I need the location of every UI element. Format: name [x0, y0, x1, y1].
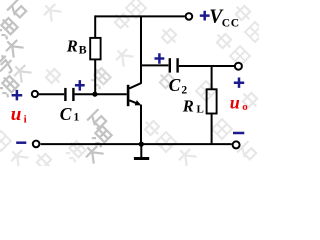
svg-text:L: L [197, 104, 204, 116]
terminal input + [32, 91, 38, 97]
wire collector to C2 [141, 64, 168, 66]
wire emitter vertical [140, 105, 142, 145]
plus input [12, 90, 23, 101]
resistor RB [90, 38, 100, 60]
node emitter-ground junction [139, 142, 144, 147]
minus output [233, 132, 244, 135]
wire input top to C1 [39, 93, 64, 95]
transistor Q1 collector [129, 83, 141, 88]
wire RL top [211, 66, 213, 89]
svg-text:B: B [79, 43, 87, 57]
plus C2 [155, 53, 165, 64]
terminal output - [233, 141, 240, 148]
svg-text:R: R [182, 97, 194, 116]
plus C1 [75, 80, 85, 91]
transistor Q1 base bar [127, 85, 130, 106]
plus VCC [200, 11, 210, 21]
svg-text:C: C [60, 104, 72, 124]
capacitor C2 [170, 58, 178, 72]
svg-text:R: R [66, 36, 78, 55]
terminal output + [235, 63, 242, 70]
wire RL bottom [211, 114, 213, 145]
wire collector vertical [140, 16, 142, 83]
capacitor C1 [65, 88, 73, 101]
plus output [234, 78, 244, 88]
label ui [11, 92, 248, 125]
wire C2 to output [179, 65, 235, 67]
resistor RL [207, 89, 217, 113]
transistor Q1 emitter [129, 100, 140, 104]
label RB [60, 6, 240, 123]
wire bottom rail [41, 143, 232, 145]
svg-text:o: o [242, 101, 248, 113]
ground [140, 144, 142, 157]
svg-text:2: 2 [181, 85, 187, 97]
svg-text:C: C [169, 75, 181, 95]
svg-text:u: u [11, 104, 22, 125]
wire top rail [95, 15, 185, 17]
wire RB top [94, 15, 96, 38]
svg-text:CC: CC [222, 17, 240, 29]
svg-text:1: 1 [74, 112, 80, 124]
wire RB bottom [94, 59, 96, 94]
polarity marks (navy) [12, 11, 245, 143]
svg-text:u: u [230, 92, 240, 112]
node base junction [92, 92, 97, 97]
terminal VCC [186, 13, 193, 20]
minus input [16, 141, 26, 144]
wire C1 to base [75, 93, 127, 95]
emitter arrowhead [135, 100, 142, 105]
svg-text:i: i [24, 113, 27, 125]
terminal input - [33, 141, 40, 148]
